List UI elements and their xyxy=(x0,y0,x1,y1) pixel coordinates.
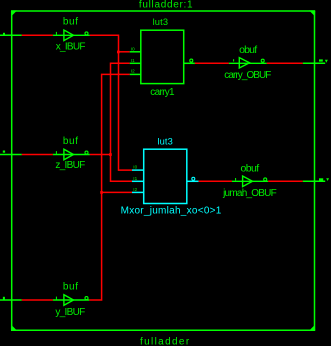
wire x input xyxy=(22,34,53,36)
carry_OBUF pin O xyxy=(261,59,264,62)
input port y xyxy=(0,299,22,301)
input port x xyxy=(0,34,22,36)
junction net x at carry1.I0 xyxy=(117,51,120,54)
svg-text:fulladder: fulladder xyxy=(140,336,191,346)
svg-text:buf: buf xyxy=(63,136,79,147)
lut3 carry1 xyxy=(130,30,195,83)
y_IBUF pin O xyxy=(85,297,88,300)
output port jumah xyxy=(319,178,323,180)
svg-text:y_IBUF: y_IBUF xyxy=(55,307,85,318)
input port z xyxy=(0,154,22,156)
svg-text:x_IBUF: x_IBUF xyxy=(56,41,86,52)
net jumah outside boundary xyxy=(303,180,325,182)
junction net y at Mxor.I2 xyxy=(100,191,103,194)
carry1 pin O xyxy=(190,59,193,62)
svg-text:z_IBUF: z_IBUF xyxy=(55,160,85,171)
wire y input xyxy=(22,299,53,301)
y_IBUF pin I xyxy=(55,297,57,300)
carry_OBUF pin I xyxy=(233,59,235,61)
jumah_OBUF pin I xyxy=(235,178,237,181)
Mxor pin O xyxy=(192,177,195,180)
z_IBUF pin O xyxy=(85,151,88,154)
svg-text:I0: I0 xyxy=(131,46,135,51)
buffer carry_OBUF xyxy=(229,58,267,68)
jumah_OBUF pin O xyxy=(264,178,267,181)
svg-text:I1: I1 xyxy=(133,176,137,181)
svg-text:obuf: obuf xyxy=(241,163,260,175)
net carry outside boundary xyxy=(303,62,325,64)
svg-text:Mxor_jumlah_xo<0>1: Mxor_jumlah_xo<0>1 xyxy=(121,206,222,217)
wire carry_OBUF.O to port carry xyxy=(267,62,303,64)
svg-text:I2: I2 xyxy=(133,187,137,192)
svg-text:obuf: obuf xyxy=(239,44,257,56)
svg-text:lut3: lut3 xyxy=(153,17,169,27)
svg-text:fulladder:1: fulladder:1 xyxy=(139,0,193,11)
svg-text:lut3: lut3 xyxy=(157,137,173,147)
wire z input xyxy=(22,154,53,156)
wire net y (y_IBUF.O to carry1.I2 and Mxor.I2) xyxy=(89,74,132,300)
svg-text:I2: I2 xyxy=(131,69,135,74)
buffer jumah_OBUF xyxy=(232,176,268,187)
svg-text:I1: I1 xyxy=(131,58,135,63)
wire net x (x_IBUF.O to carry1.I0 and Mxor.I0) xyxy=(90,35,132,170)
z_IBUF pin I xyxy=(55,151,57,154)
boundary corner marker bottom-right xyxy=(309,325,315,331)
junction net z xyxy=(109,153,112,156)
svg-text:buf: buf xyxy=(63,17,79,28)
svg-text:buf: buf xyxy=(63,281,79,292)
buffer z_IBUF xyxy=(53,149,90,160)
wire jumah_OBUF.O to port jumah xyxy=(268,180,303,182)
wire Mxor.O to jumah_OBUF.I xyxy=(199,180,232,182)
output port carry xyxy=(319,59,323,61)
x_IBUF pin I xyxy=(55,32,57,35)
lut3 Mxor_jumlah_xo<0>1 xyxy=(132,149,199,203)
svg-text:I0: I0 xyxy=(133,165,137,170)
buffer x_IBUF xyxy=(53,30,90,41)
boundary corner marker bottom-left xyxy=(11,325,17,331)
svg-text:jumah_OBUF: jumah_OBUF xyxy=(222,188,277,199)
svg-text:carry1: carry1 xyxy=(150,87,175,98)
svg-text:carry_OBUF: carry_OBUF xyxy=(224,70,271,81)
buffer y_IBUF xyxy=(53,295,89,306)
wire net z (z_IBUF.O to carry1.I1 and Mxor.I1) xyxy=(90,63,132,181)
boundary corner marker top-left xyxy=(11,10,17,16)
x_IBUF pin O xyxy=(85,32,88,35)
wire carry1.O to carry_OBUF.I xyxy=(195,62,229,64)
boundary corner marker top-right xyxy=(309,10,315,16)
